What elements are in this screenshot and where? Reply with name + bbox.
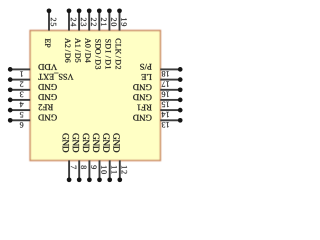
- pin number 3: [20, 92, 23, 98]
- pin number 10: [101, 166, 107, 174]
- pin 2 terminal dot: [8, 77, 13, 82]
- pin number 15: [162, 102, 169, 107]
- pin 1 label VDD: [38, 64, 57, 70]
- pin 20 wire (top side): [108, 11, 110, 31]
- pin 9 terminal dot: [87, 177, 92, 182]
- pin number 14: [162, 112, 169, 117]
- pin 11 terminal dot: [107, 177, 112, 182]
- pin 11 wire (bottom side): [109, 160, 111, 179]
- pin 16 label GND: [133, 84, 151, 90]
- pin 13 terminal dot: [178, 118, 183, 123]
- pin 21 wire (top side): [98, 11, 100, 31]
- pin number 16: [162, 92, 169, 98]
- pin 17 terminal dot: [178, 77, 183, 82]
- pin 17 wire (right side): [160, 79, 180, 81]
- pin 23 terminal dot: [77, 8, 82, 13]
- pin 3 label GND: [38, 84, 56, 90]
- pin number 1: [20, 71, 23, 76]
- pin 22 label A0/D4: [85, 38, 90, 62]
- IC package body: [30, 31, 160, 161]
- pin 10 wire (bottom side): [99, 160, 101, 179]
- pin 22 terminal dot: [87, 8, 92, 13]
- pin 14 terminal dot: [178, 108, 183, 113]
- pin 6 terminal dot: [8, 118, 13, 123]
- pin number 25: [51, 18, 57, 26]
- pin number 4: [20, 102, 24, 107]
- pin 6 wire (left side): [10, 119, 30, 121]
- pin number 5: [20, 112, 23, 117]
- pin 25 wire (top side): [48, 11, 50, 31]
- pin number 11: [112, 166, 117, 174]
- pin 15 wire (right side): [160, 99, 180, 101]
- pin 2 wire (left side): [10, 79, 30, 81]
- pin 9 wire (bottom side): [88, 160, 90, 179]
- pin number 18: [162, 71, 169, 77]
- pin 4 terminal dot: [8, 98, 13, 103]
- pin 3 terminal dot: [8, 87, 13, 92]
- pin 19 wire (top side): [119, 11, 121, 31]
- pin 17 label LE: [142, 74, 152, 80]
- pin 5 label RF2: [39, 104, 53, 110]
- pin 22 wire (top side): [88, 11, 90, 31]
- pin 23 label A1/D5: [75, 38, 80, 62]
- pin number 23: [81, 18, 87, 26]
- pin 13 label GND: [133, 115, 151, 121]
- pin number 12: [122, 166, 127, 174]
- pin 12 wire (bottom side): [119, 160, 121, 179]
- pin 25 terminal dot: [47, 8, 52, 13]
- pin 9 label GND: [83, 133, 89, 152]
- pin 8 terminal dot: [77, 177, 82, 182]
- pin number 24: [71, 18, 76, 26]
- pin 1 terminal dot: [8, 67, 13, 72]
- pin 12 label GND: [113, 133, 119, 152]
- pin 23 wire (top side): [78, 11, 80, 31]
- pin 18 label P/S: [140, 64, 151, 70]
- pin number 9: [91, 165, 97, 168]
- pin 13 wire (right side): [160, 119, 180, 121]
- pin 21 label SDO/D3: [95, 39, 100, 69]
- pin 10 label GND: [93, 133, 99, 152]
- pin 14 wire (right side): [160, 109, 180, 111]
- pin 14 label RF1: [137, 105, 151, 111]
- pin 5 wire (left side): [10, 109, 30, 111]
- pin 20 terminal dot: [107, 8, 112, 13]
- pin 15 label GND: [133, 94, 151, 100]
- pin 18 wire (right side): [160, 68, 180, 70]
- pin 24 label A2/D6: [65, 38, 70, 62]
- pin number 7: [71, 166, 76, 169]
- pin 4 wire (left side): [10, 99, 30, 101]
- pin 20 label SDI/D1: [106, 39, 111, 69]
- pin 10 terminal dot: [97, 177, 102, 182]
- pin 2 label VSS_EXT: [38, 73, 73, 80]
- pin number 8: [81, 165, 87, 168]
- pin 6 label GND: [38, 115, 56, 121]
- pin 24 terminal dot: [67, 8, 72, 13]
- pin 5 terminal dot: [8, 108, 13, 113]
- pin 1 wire (left side): [10, 68, 30, 70]
- pin 19 label CLK/D2: [116, 39, 121, 70]
- pin 16 terminal dot: [178, 87, 183, 92]
- pin 16 wire (right side): [160, 89, 180, 91]
- pin 8 wire (bottom side): [78, 160, 80, 179]
- pin number 22: [91, 18, 96, 26]
- pin 12 terminal dot: [117, 177, 122, 182]
- pin 19 terminal dot: [117, 8, 122, 13]
- pin 3 wire (left side): [10, 89, 30, 91]
- pin number 21: [101, 18, 106, 26]
- pin 7 label GND: [63, 133, 69, 152]
- pin 8 label GND: [73, 133, 79, 152]
- pin number 2: [20, 82, 23, 87]
- pin 11 label GND: [103, 133, 109, 152]
- pin 24 wire (top side): [68, 11, 70, 31]
- pin number 6: [20, 122, 24, 128]
- pin 21 terminal dot: [97, 8, 102, 13]
- pin 15 terminal dot: [178, 98, 183, 103]
- pin number 19: [121, 18, 127, 26]
- pin number 13: [162, 122, 169, 128]
- pin 7 terminal dot: [67, 177, 72, 182]
- pin 25 label EP: [45, 39, 50, 48]
- pin number 20: [111, 18, 117, 26]
- pin number 17: [162, 81, 169, 86]
- pin 7 wire (bottom side): [68, 160, 70, 179]
- pin 4 label GND: [38, 94, 56, 100]
- pin 18 terminal dot: [178, 67, 183, 72]
